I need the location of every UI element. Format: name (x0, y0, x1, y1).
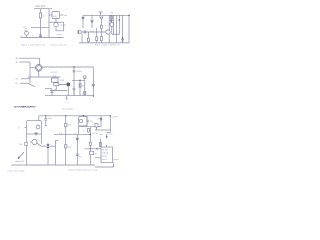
wire zener line (72, 78, 85, 80)
svg-text:10k: 10k (19, 144, 22, 146)
wire D8 column (100, 121, 102, 127)
svg-text:2.2k: 2.2k (68, 124, 72, 126)
wire R4 column (79, 80, 81, 95)
wire D1 lead (26, 35, 28, 37)
resistor R1 (39, 13, 41, 18)
wire X1 stub up (47, 143, 49, 145)
wire K1 drop (96, 127, 98, 130)
wire out y133 (106, 132, 110, 134)
wire Q5 to X (37, 143, 41, 146)
resistor R7 (65, 145, 67, 148)
wire right edge C (92, 67, 94, 96)
svg-text:100n: 100n (48, 118, 52, 120)
resistor R8 (87, 129, 89, 133)
wire Q2 collector (108, 15, 110, 30)
resistor R3 (110, 16, 112, 19)
resistor R4 (79, 84, 81, 88)
IC box U4 (101, 147, 113, 163)
wire left vertical A (40, 9, 42, 38)
capacitor C2 (84, 31, 85, 34)
wire bridge left feed (30, 62, 35, 79)
svg-text:10u: 10u (79, 156, 82, 158)
wire lower joint (28, 79, 35, 87)
junction dot D7 (96, 148, 97, 149)
wire lower line 1 (21, 78, 30, 80)
switch SW1 (98, 12, 102, 15)
wire to base (86, 31, 106, 33)
wire base feed (31, 26, 49, 28)
junction dot B (122, 37, 124, 39)
wire column x65 (65, 116, 67, 165)
capacitor C4 (121, 40, 124, 41)
wire emitter out (56, 22, 64, 31)
capacitor C1 (39, 35, 42, 37)
resistor R12 (84, 91, 86, 94)
wire mid rail D (54, 133, 90, 135)
sensor T1 (100, 17, 103, 24)
wire column x88 (87, 32, 89, 43)
svg-text:12V charger: 12V charger (62, 107, 74, 110)
svg-text:22u: 22u (90, 121, 93, 123)
wire bottom rail C (45, 95, 93, 97)
box small U3 (54, 83, 59, 86)
wire box drop (55, 86, 57, 91)
wire corner into x119 (112, 33, 120, 35)
transistor Q1 (54, 22, 58, 26)
wire Q3 down (111, 26, 113, 34)
wire sub horizontal C (45, 88, 52, 90)
wire return line (28, 76, 60, 78)
junction dot C2 (79, 80, 80, 81)
wire lower line 2 (20, 82, 28, 84)
wire D box top (27, 120, 42, 122)
capacitor C7 (73, 88, 76, 96)
svg-text:battery: battery (113, 158, 119, 161)
transistor blob Q4 (67, 83, 70, 86)
wire Q4 column (59, 84, 69, 95)
relay box RL1 (79, 117, 87, 126)
wire AC line 1 (19, 57, 40, 59)
wire relay bottom stub (78, 126, 80, 135)
wire column x90 (89, 127, 91, 165)
svg-text:output: output (57, 33, 63, 36)
junction dot C1 (73, 66, 74, 67)
diode D2 (82, 15, 84, 28)
svg-text:12V DC: 12V DC (50, 72, 58, 74)
pot arrow P1 (18, 152, 24, 159)
transistor Q5 (32, 139, 37, 144)
svg-text:1k: 1k (83, 130, 85, 132)
svg-text:adjust 10k: adjust 10k (15, 160, 24, 163)
wire label tick (25, 127, 27, 129)
junction dot D4 (110, 115, 111, 116)
capacitor C6 (51, 89, 54, 96)
ground symbol C (66, 96, 68, 100)
svg-text:SLA 7A: SLA 7A (102, 152, 109, 155)
svg-text:12V POWER SUPPLY: 12V POWER SUPPLY (14, 106, 36, 108)
capacitor C8 (44, 116, 47, 126)
svg-text:D1: D1 (97, 119, 99, 121)
svg-text:battery charger with auto cut-: battery charger with auto cut-off (68, 168, 98, 171)
bridge diodes (36, 65, 42, 71)
wire U1 input (49, 14, 52, 16)
svg-text:pack 1: pack 1 (102, 159, 107, 161)
wire top rail B (83, 14, 129, 16)
svg-text:Fig 2. simple amplifier ckt: Fig 2. simple amplifier ckt (95, 44, 120, 47)
wire column x96 (96, 28, 98, 43)
svg-text:out: out (64, 14, 67, 17)
wire ground rail D (12, 164, 96, 166)
resistor R5 (25, 142, 27, 145)
capacitor C9 (76, 154, 79, 156)
capacitor C11 (90, 151, 94, 154)
wire feed column full (48, 15, 50, 38)
wire right column D (109, 116, 111, 133)
transistor Q3 (110, 23, 114, 27)
resistor R14 (100, 25, 102, 28)
capacitor C5 (73, 67, 76, 96)
transistor Q2 (106, 30, 110, 34)
junction dot x119 (119, 19, 121, 21)
wire under relay (79, 126, 101, 128)
resistor R9 (99, 142, 101, 146)
diode D3 (91, 15, 93, 28)
svg-text:+9 to 12V: +9 to 12V (35, 5, 46, 8)
diode D6 (35, 133, 37, 135)
arrow output (106, 134, 108, 138)
wire top rail D (39, 115, 111, 117)
svg-text:fuse: fuse (53, 76, 56, 78)
svg-text:LED: LED (24, 30, 28, 32)
junction dot D5 (90, 134, 91, 135)
wire x55 drop (55, 141, 57, 166)
wire column x116 (116, 15, 118, 43)
wire mic out (81, 31, 86, 33)
wire D left corner (38, 116, 40, 121)
wire collector rail (49, 21, 64, 23)
svg-text:+12V In: +12V In (111, 116, 118, 118)
junction dot D3 (83, 115, 84, 116)
terminal dot B rail (128, 15, 129, 16)
component K1 (95, 124, 98, 128)
diode D5 (92, 85, 94, 87)
wire column x77 (76, 134, 78, 165)
LED D1 (25, 31, 29, 35)
SCR X1 bowtie (47, 145, 50, 148)
wire AC line 2 (20, 61, 31, 63)
wire D box right (40, 121, 42, 144)
wire ground rail D right (95, 163, 114, 168)
svg-text:BC557: BC557 (60, 25, 66, 27)
wire box top stub (106, 145, 108, 147)
svg-text:10k: 10k (82, 85, 85, 87)
resistor R6 (65, 123, 67, 126)
wire column R3 (110, 15, 112, 20)
capacitor C10 (87, 120, 89, 122)
microphone MIC1 (78, 30, 82, 34)
wire X1 left (41, 145, 46, 147)
photo sensor PC1 (36, 125, 40, 129)
wire D mid horizontal (27, 133, 42, 135)
wire column x113 (113, 15, 115, 35)
wire top rail A (34, 8, 52, 10)
svg-text:battery: battery (102, 155, 108, 158)
svg-text:4.7k: 4.7k (59, 133, 63, 135)
diode D10 (110, 20, 112, 22)
wire column x122 (122, 15, 124, 43)
junction dot D1 (45, 115, 46, 116)
wire into box y148 (85, 148, 102, 150)
wire bridge top feed (39, 58, 41, 64)
wire bridge bottom (38, 71, 40, 77)
svg-text:Figure 1. LED flasher ckt.: Figure 1. LED flasher ckt. (21, 44, 46, 47)
wire DC positive line (42, 66, 93, 68)
wire mid horizontal (50, 90, 68, 92)
svg-text:1000u: 1000u (76, 71, 82, 73)
diode D7 (76, 138, 78, 140)
diode D9 (89, 142, 91, 145)
wire R12 column (84, 80, 86, 95)
relay coil circle (79, 119, 82, 122)
diode D8 (100, 116, 102, 121)
wire sensor drop (100, 24, 102, 43)
junction dot D6 (90, 148, 91, 149)
wire out y129 (95, 129, 110, 131)
svg-text:B1 12V: B1 12V (102, 150, 109, 152)
wire Q5 base (30, 141, 32, 143)
resistor R11 (96, 37, 98, 41)
wire bottom rail B (79, 42, 129, 44)
wire vertical feed (48, 9, 50, 15)
IC U1 box (52, 12, 60, 19)
wire U1 output (60, 14, 64, 16)
wire D box left (26, 121, 28, 165)
wire bottom rail A (21, 36, 64, 38)
wire R9 column (99, 139, 101, 148)
resistor R13 (87, 38, 89, 41)
regulator U2 box (52, 78, 59, 82)
wire corner x55 (56, 140, 59, 142)
svg-text:0.1u: 0.1u (90, 30, 94, 32)
wire Q1 emitter (55, 27, 57, 31)
wire Q1 collector stub (55, 19, 57, 23)
resistor R2 (100, 37, 102, 41)
svg-text:Fig 4. 12V charger: Fig 4. 12V charger (8, 169, 25, 172)
wire X1 right (50, 145, 56, 147)
bridge rectifier BR1 (35, 64, 42, 71)
junction dot D2 (65, 115, 66, 116)
svg-text:www.circuits.com: www.circuits.com (50, 43, 67, 46)
wire right edge B (128, 15, 130, 43)
wire X1 drop (47, 148, 49, 165)
svg-text:out: out (100, 133, 103, 136)
svg-text:BC547: BC547 (93, 133, 99, 135)
svg-text:in: in (19, 128, 21, 130)
wire into box y157 (95, 157, 101, 159)
wire relay right (86, 116, 88, 127)
wire Q2 emitter (108, 34, 110, 43)
wire x119 column (119, 15, 121, 34)
wire mic ground (81, 34, 83, 43)
zener D4 (84, 76, 87, 78)
svg-text:1k: 1k (74, 133, 76, 135)
terminal dot C (93, 95, 94, 96)
